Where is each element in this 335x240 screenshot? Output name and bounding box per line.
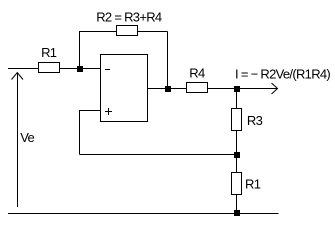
- wire: input left segment to R1: [8, 68, 39, 70]
- arrowhead of output current arrow: [272, 83, 278, 94]
- svg-text:I = − R2Ve/(R1R4): I = − R2Ve/(R1R4): [235, 67, 330, 82]
- op-amp inverting input minus sign: [105, 69, 110, 71]
- svg-text:R1: R1: [41, 45, 57, 60]
- wire: feedback bottom horizontal to divider node: [80, 154, 237, 156]
- svg-text:R3: R3: [247, 113, 263, 128]
- arrowhead of Ve arrow (pointing up): [12, 73, 24, 80]
- node: junction at ground rail: [234, 210, 240, 216]
- wire: R3 to divider node: [236, 130, 238, 155]
- svg-text:R1: R1: [245, 177, 261, 192]
- wire: feedback top horizontal right of R2: [137, 31, 168, 33]
- svg-text:R4: R4: [189, 65, 205, 80]
- wire: output node down to R3: [236, 89, 238, 110]
- resistor R1 (divider bottom) body: [232, 173, 242, 195]
- svg-text:R2 = R3+R4: R2 = R3+R4: [96, 9, 162, 24]
- node: junction at R3/R1 divider: [234, 152, 240, 158]
- op-amp U1 body: [101, 55, 148, 122]
- resistor R1 (input) body: [39, 63, 60, 73]
- ground rail: [8, 213, 279, 215]
- resistor R2 (feedback) body: [117, 26, 138, 36]
- wire: non-inverting input horizontal: [79, 110, 101, 112]
- svg-text:Ve: Ve: [20, 130, 34, 145]
- node A: junction at inverting input: [77, 66, 83, 72]
- wire: output current arrow shaft: [237, 88, 278, 90]
- wire: feedback vertical down to op-amp output node: [167, 32, 169, 89]
- node: junction at output current node: [234, 86, 240, 92]
- op-amp non-inverting input plus sign: [105, 111, 112, 113]
- resistor R4 (output) body: [187, 83, 208, 93]
- resistor R3 (divider top) body: [232, 109, 242, 131]
- wire: input segment from R1 to op-amp inverting input: [59, 68, 101, 70]
- wire: R1 to ground node: [236, 194, 238, 214]
- wire: divider node down to R1: [236, 155, 238, 174]
- node: junction at op-amp output: [165, 86, 171, 92]
- wire: R4 to output node: [207, 88, 237, 90]
- wire: Ve source vertical line: [17, 73, 19, 207]
- wire: feedback vertical from node A up to R2 level: [79, 31, 81, 69]
- wire: op-amp output to R4: [148, 88, 188, 90]
- wire: feedback top horizontal left of R2: [80, 31, 118, 33]
- wire: non-inverting feedback vertical: [79, 111, 81, 155]
